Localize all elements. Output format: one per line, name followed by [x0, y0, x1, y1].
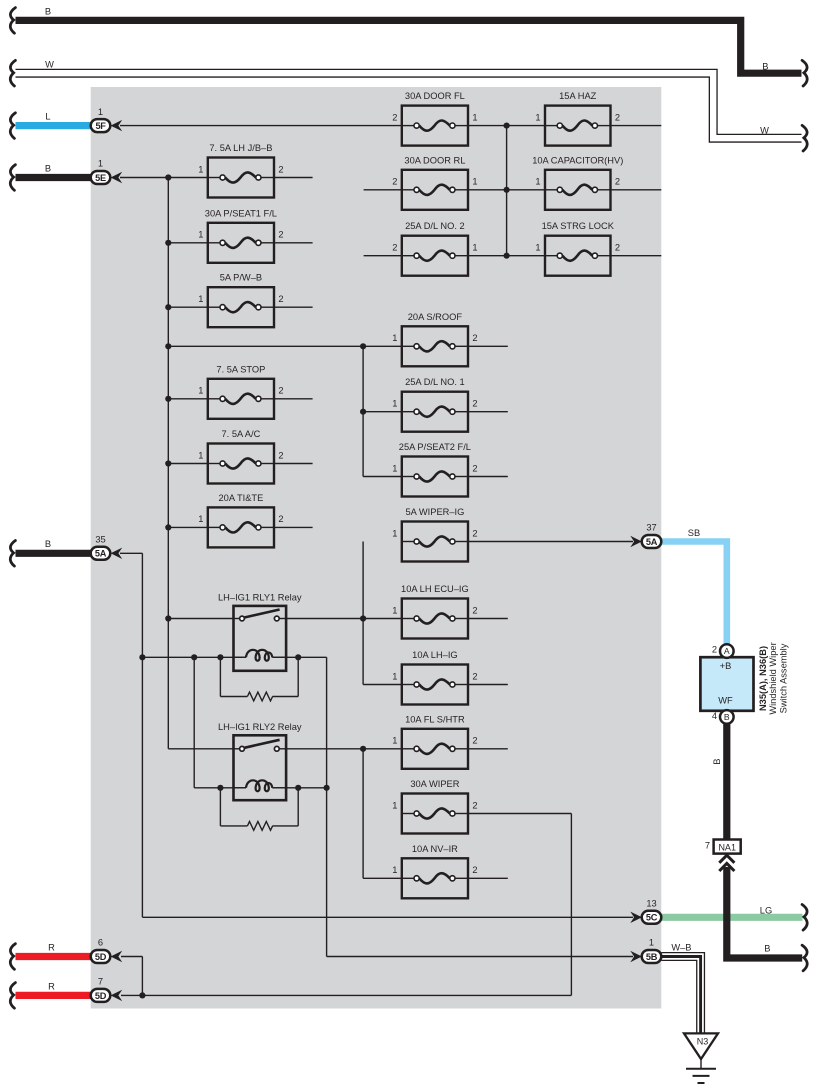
svg-text:15A HAZ: 15A HAZ — [559, 91, 597, 101]
svg-text:2: 2 — [472, 333, 477, 343]
svg-text:5F: 5F — [95, 121, 106, 131]
svg-text:1: 1 — [98, 159, 103, 169]
svg-text:30A DOOR RL: 30A DOOR RL — [404, 155, 465, 165]
svg-text:10A NV–IR: 10A NV–IR — [412, 844, 458, 854]
svg-text:30A P/SEAT1 F/L: 30A P/SEAT1 F/L — [205, 208, 277, 218]
svg-text:1: 1 — [98, 107, 103, 117]
svg-text:1: 1 — [392, 399, 397, 409]
svg-text:L: L — [45, 112, 50, 122]
svg-text:2: 2 — [712, 644, 717, 654]
svg-text:B: B — [45, 539, 51, 549]
svg-text:2: 2 — [278, 386, 283, 396]
svg-text:B: B — [762, 61, 768, 71]
svg-text:5A WIPER–IG: 5A WIPER–IG — [405, 507, 464, 517]
svg-text:B: B — [724, 712, 730, 722]
svg-text:1: 1 — [392, 671, 397, 681]
svg-text:5A: 5A — [646, 537, 658, 547]
svg-text:1: 1 — [649, 938, 654, 948]
svg-text:2: 2 — [472, 463, 477, 473]
svg-text:1: 1 — [198, 450, 203, 460]
svg-text:20A TI&TE: 20A TI&TE — [219, 493, 264, 503]
svg-text:1: 1 — [392, 736, 397, 746]
svg-text:1: 1 — [392, 528, 397, 538]
svg-text:B: B — [45, 163, 51, 173]
svg-text:B: B — [712, 758, 722, 764]
svg-text:2: 2 — [615, 112, 620, 122]
svg-text:2: 2 — [472, 865, 477, 875]
svg-text:1: 1 — [198, 514, 203, 524]
svg-text:5C: 5C — [646, 913, 658, 923]
svg-text:10A FL S/HTR: 10A FL S/HTR — [405, 714, 465, 724]
svg-text:N35(A), N36(B): N35(A), N36(B) — [758, 646, 768, 711]
svg-text:R: R — [48, 942, 55, 952]
svg-text:B: B — [764, 944, 770, 954]
svg-text:37: 37 — [646, 523, 656, 533]
svg-text:2: 2 — [278, 230, 283, 240]
svg-text:4: 4 — [712, 711, 717, 721]
svg-text:1: 1 — [392, 463, 397, 473]
svg-text:2: 2 — [472, 671, 477, 681]
svg-text:2: 2 — [278, 450, 283, 460]
svg-text:Switch Assembly: Switch Assembly — [778, 643, 788, 713]
svg-text:1: 1 — [472, 243, 477, 253]
svg-text:20A S/ROOF: 20A S/ROOF — [408, 312, 463, 322]
svg-text:1: 1 — [472, 112, 477, 122]
svg-text:25A P/SEAT2 F/L: 25A P/SEAT2 F/L — [399, 442, 471, 452]
svg-text:2: 2 — [278, 294, 283, 304]
svg-text:B: B — [45, 6, 51, 16]
svg-text:R: R — [48, 981, 55, 991]
svg-text:1: 1 — [198, 294, 203, 304]
svg-text:25A D/L NO. 1: 25A D/L NO. 1 — [405, 377, 465, 387]
svg-text:2: 2 — [472, 528, 477, 538]
svg-text:25A D/L NO. 2: 25A D/L NO. 2 — [405, 221, 465, 231]
svg-text:LG: LG — [760, 906, 772, 916]
svg-text:1: 1 — [392, 333, 397, 343]
svg-text:2: 2 — [615, 243, 620, 253]
svg-text:5B: 5B — [646, 952, 658, 962]
svg-text:15A STRG LOCK: 15A STRG LOCK — [542, 221, 615, 231]
svg-text:1: 1 — [198, 386, 203, 396]
svg-text:7: 7 — [705, 841, 710, 851]
svg-text:2: 2 — [472, 605, 477, 615]
svg-text:W: W — [760, 125, 769, 135]
svg-text:1: 1 — [392, 865, 397, 875]
svg-text:1: 1 — [535, 243, 540, 253]
svg-text:WF: WF — [718, 696, 733, 706]
svg-text:SB: SB — [688, 528, 700, 538]
svg-text:5A: 5A — [95, 549, 107, 559]
svg-text:1: 1 — [472, 177, 477, 187]
svg-text:10A LH ECU–IG: 10A LH ECU–IG — [401, 584, 469, 594]
svg-text:+B: +B — [720, 661, 732, 671]
svg-text:30A DOOR FL: 30A DOOR FL — [405, 91, 465, 101]
svg-text:35: 35 — [95, 535, 105, 545]
svg-text:5A P/W–B: 5A P/W–B — [220, 273, 262, 283]
svg-text:LH–IG1 RLY1 Relay: LH–IG1 RLY1 Relay — [218, 592, 302, 602]
svg-text:5D: 5D — [95, 952, 107, 962]
svg-text:LH–IG1 RLY2 Relay: LH–IG1 RLY2 Relay — [218, 722, 302, 732]
svg-text:30A WIPER: 30A WIPER — [410, 779, 459, 789]
svg-text:7. 5A A/C: 7. 5A A/C — [222, 429, 261, 439]
svg-text:10A CAPACITOR(HV): 10A CAPACITOR(HV) — [532, 155, 623, 165]
svg-text:1: 1 — [535, 112, 540, 122]
svg-text:6: 6 — [98, 938, 103, 948]
svg-text:2: 2 — [472, 800, 477, 810]
svg-text:2: 2 — [278, 164, 283, 174]
svg-text:7. 5A LH J/B–B: 7. 5A LH J/B–B — [209, 143, 272, 153]
svg-text:13: 13 — [646, 899, 656, 909]
svg-text:2: 2 — [278, 514, 283, 524]
svg-text:2: 2 — [392, 177, 397, 187]
svg-text:1: 1 — [392, 605, 397, 615]
svg-text:W: W — [45, 59, 54, 69]
svg-text:NA1: NA1 — [718, 842, 736, 852]
svg-text:2: 2 — [392, 243, 397, 253]
svg-text:W–B: W–B — [671, 943, 691, 953]
svg-text:5D: 5D — [95, 991, 107, 1001]
svg-text:2: 2 — [472, 736, 477, 746]
svg-text:1: 1 — [535, 177, 540, 187]
svg-text:7. 5A STOP: 7. 5A STOP — [216, 364, 265, 374]
svg-text:Windshield Wiper: Windshield Wiper — [768, 642, 778, 714]
svg-text:A: A — [724, 646, 730, 656]
svg-text:N3: N3 — [697, 1037, 709, 1047]
svg-text:1: 1 — [198, 164, 203, 174]
svg-text:10A LH–IG: 10A LH–IG — [412, 650, 457, 660]
svg-text:2: 2 — [392, 112, 397, 122]
svg-text:2: 2 — [615, 177, 620, 187]
svg-text:1: 1 — [392, 800, 397, 810]
svg-text:1: 1 — [198, 230, 203, 240]
svg-text:5E: 5E — [95, 173, 106, 183]
svg-text:2: 2 — [472, 399, 477, 409]
svg-text:7: 7 — [98, 977, 103, 987]
